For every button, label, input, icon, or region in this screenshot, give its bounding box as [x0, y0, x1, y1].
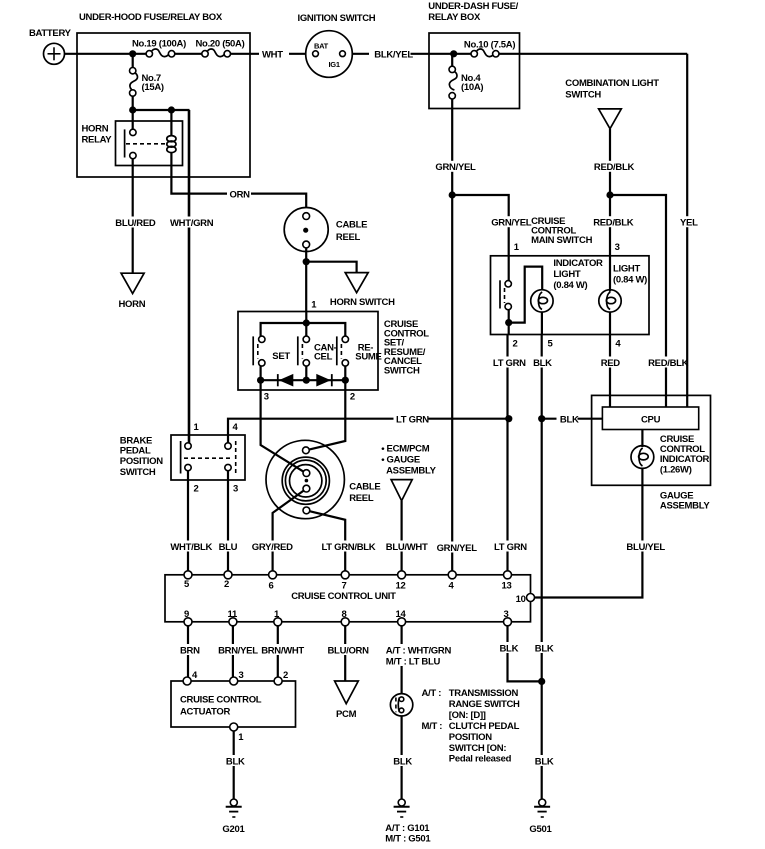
svg-text:No.19 (100A): No.19 (100A)	[132, 39, 186, 50]
wire branch to horn switch	[306, 262, 356, 273]
switch SET	[253, 336, 290, 366]
wire branch to main switch pin 1	[452, 195, 509, 256]
svg-text:POSITION: POSITION	[449, 732, 492, 743]
svg-text:LT GRN: LT GRN	[396, 415, 429, 426]
wire cable reel to horn switch node	[305, 248, 307, 312]
svg-text:CPU: CPU	[641, 415, 661, 426]
svg-text:BLK: BLK	[226, 757, 245, 768]
svg-text:GRY/RED: GRY/RED	[252, 542, 293, 553]
svg-text:HORN: HORN	[82, 124, 109, 135]
actuator terminal 1	[230, 723, 238, 731]
svg-text:CABLE: CABLE	[336, 220, 367, 231]
wire BLU	[227, 471, 229, 575]
svg-text:BRN: BRN	[180, 646, 200, 657]
combination light switch	[565, 78, 659, 129]
svg-text:SWITCH: SWITCH	[120, 467, 156, 478]
wire BRN/YEL	[232, 626, 234, 681]
svg-text:ASSEMBLY: ASSEMBLY	[386, 466, 436, 477]
svg-text:11: 11	[228, 609, 238, 620]
wire coil bottom lead / ORN to cable reel	[171, 153, 306, 208]
svg-text:MAIN SWITCH: MAIN SWITCH	[531, 235, 593, 246]
svg-text:BAT: BAT	[314, 42, 329, 51]
svg-text:GRN/YEL: GRN/YEL	[491, 218, 532, 229]
switch RESUME	[337, 336, 382, 366]
svg-text:BRN/WHT: BRN/WHT	[261, 646, 304, 657]
under-hood fuse/relay box	[77, 33, 250, 177]
svg-text:SET: SET	[272, 351, 290, 362]
cruise control set/resume/cancel switch box	[238, 312, 378, 391]
under-dash fuse/relay box	[429, 33, 520, 109]
wire YEL vertical	[686, 54, 688, 408]
svg-text:No.10 (7.5A): No.10 (7.5A)	[464, 40, 515, 51]
svg-text:13: 13	[502, 581, 512, 592]
light bulb	[599, 256, 621, 335]
wire pin 3 to cable reel 2	[261, 380, 306, 473]
fuse No.10 (7.5A)	[464, 40, 515, 58]
node bottom bus left	[257, 377, 264, 384]
wire BLK to G201	[233, 731, 235, 799]
svg-text:2: 2	[513, 339, 518, 350]
svg-text:WHT/BLK: WHT/BLK	[170, 542, 212, 553]
svg-text:HORN SWITCH: HORN SWITCH	[330, 297, 395, 308]
svg-text:BLK/YEL: BLK/YEL	[374, 50, 413, 61]
svg-text:REEL: REEL	[349, 493, 374, 504]
diode D1 (points left)	[278, 374, 294, 387]
wire into box to node	[429, 53, 472, 55]
svg-text:A/T : WHT/GRN: A/T : WHT/GRN	[386, 646, 452, 657]
node GRN/YEL branch	[449, 191, 456, 198]
svg-text:• GAUGE: • GAUGE	[381, 455, 420, 466]
switch CANCEL	[298, 336, 337, 366]
wire BLK to CPU	[542, 418, 603, 420]
svg-text:RED/BLK: RED/BLK	[593, 218, 634, 229]
svg-text:POSITION: POSITION	[120, 456, 163, 467]
svg-text:2: 2	[224, 579, 229, 590]
terminal 5	[184, 571, 192, 579]
node horn switch branch	[303, 258, 310, 265]
svg-text:BRN/YEL: BRN/YEL	[218, 646, 258, 657]
terminal 7	[341, 571, 349, 579]
svg-text:UNDER-DASH FUSE/: UNDER-DASH FUSE/	[428, 1, 518, 12]
svg-text:LIGHT: LIGHT	[553, 269, 580, 280]
gauge assembly box	[592, 395, 711, 485]
wire relay top bus	[133, 109, 190, 111]
wire RED (pin 4 to CPU)	[609, 335, 611, 408]
svg-text:GRN/YEL: GRN/YEL	[435, 162, 476, 173]
wire BLU/WHT	[401, 501, 403, 575]
svg-text:INDICATOR: INDICATOR	[660, 454, 710, 465]
svg-text:(0.84 W): (0.84 W)	[613, 275, 647, 286]
wire BRN	[187, 626, 189, 681]
terminal 6	[269, 571, 277, 579]
wire cable reel to GRY/RED	[273, 489, 307, 575]
wire RED/BLK from combination switch	[609, 129, 611, 256]
svg-text:2: 2	[350, 392, 355, 403]
node battery bus / fuse No.7	[129, 50, 136, 57]
svg-text:LT GRN/BLK: LT GRN/BLK	[322, 542, 376, 553]
wire fuse No.7 to relay bus	[132, 96, 134, 110]
wire BLK to G101	[401, 716, 403, 799]
cruise control actuator box	[171, 681, 296, 727]
svg-text:10: 10	[516, 594, 526, 605]
fuse No.4 (10A)	[449, 66, 483, 99]
terminal 1	[274, 618, 282, 626]
cruise control unit box	[165, 575, 531, 622]
svg-text:3: 3	[264, 392, 269, 403]
wire GRN/YEL vertical	[451, 99, 453, 575]
wire BLU/ORN to PCM	[344, 626, 346, 681]
wire pin 2 to cable reel 2	[306, 380, 345, 450]
svg-text:REEL: REEL	[336, 232, 361, 243]
wire fuse No.20 to WHT label	[230, 53, 259, 55]
svg-text:BLU/WHT: BLU/WHT	[386, 542, 428, 553]
svg-text:SWITCH: SWITCH	[384, 366, 420, 377]
svg-text:BLU: BLU	[219, 542, 238, 553]
svg-text:M/T : G501: M/T : G501	[385, 834, 431, 845]
wire WHT/GRN	[188, 110, 191, 443]
CPU box	[602, 407, 698, 430]
wire contact bottom lead / BLU/RED	[132, 159, 134, 274]
svg-text:CRUISE CONTROL: CRUISE CONTROL	[180, 695, 262, 706]
svg-text:IGNITION SWITCH: IGNITION SWITCH	[298, 13, 376, 24]
svg-text:(15A): (15A)	[142, 82, 164, 93]
svg-text:ASSEMBLY: ASSEMBLY	[660, 501, 710, 512]
wire BRN/WHT	[277, 626, 279, 681]
cruise control main switch box	[491, 256, 650, 335]
wire top bus	[261, 323, 346, 339]
svg-text:3: 3	[239, 670, 244, 681]
svg-text:CEL: CEL	[314, 352, 333, 363]
wire to indicator light	[509, 267, 543, 323]
wire ignition to BLK/YEL	[352, 53, 369, 55]
wire BLU/YEL to CCU pin 10	[532, 485, 643, 597]
svg-text:BLU/RED: BLU/RED	[115, 218, 156, 229]
svg-text:SUME: SUME	[355, 352, 381, 363]
wire LT GRN vertical (main switch pin 2 to CCU pin 13)	[506, 335, 508, 575]
terminal 13	[504, 571, 512, 579]
svg-text:BLK: BLK	[533, 358, 552, 369]
svg-text:UNDER-HOOD FUSE/RELAY BOX: UNDER-HOOD FUSE/RELAY BOX	[79, 12, 223, 23]
horn switch	[330, 273, 395, 308]
wire fuse No.19 to fuse No.20	[174, 53, 202, 55]
transmission range / clutch pedal switch	[390, 694, 412, 716]
svg-text:BLK: BLK	[535, 757, 554, 768]
wire A/T WHT/GRN	[401, 626, 403, 694]
actuator terminal 2	[274, 677, 282, 685]
svg-text:WHT/GRN: WHT/GRN	[170, 218, 214, 229]
svg-text:LIGHT: LIGHT	[613, 264, 640, 275]
svg-text:YEL: YEL	[680, 218, 698, 229]
svg-text:LT GRN: LT GRN	[494, 542, 527, 553]
wire fuse No.7 top	[132, 54, 134, 68]
node under-dash bus	[450, 50, 457, 57]
terminal 2	[224, 571, 232, 579]
svg-text:G201: G201	[222, 824, 245, 835]
svg-text:BATTERY: BATTERY	[29, 28, 72, 39]
svg-text:CLUTCH PEDAL: CLUTCH PEDAL	[449, 721, 520, 732]
svg-text:COMBINATION LIGHT: COMBINATION LIGHT	[565, 78, 659, 89]
fuse No.20 (50A)	[196, 39, 245, 58]
terminal 8	[341, 618, 349, 626]
wire fuse No.4 top lead	[451, 54, 453, 67]
indicator light bulb	[531, 290, 553, 335]
svg-text:A/T : G101: A/T : G101	[385, 823, 430, 834]
ground G501	[529, 799, 552, 835]
svg-text:RED: RED	[601, 358, 621, 369]
svg-text:M/T : LT BLU: M/T : LT BLU	[386, 657, 441, 668]
svg-text:A/T :: A/T :	[422, 688, 442, 699]
node relay contact feed	[129, 106, 136, 113]
svg-text:PEDAL: PEDAL	[120, 446, 151, 457]
node relay coil feed	[168, 106, 175, 113]
svg-text:9: 9	[184, 609, 189, 620]
svg-text:3: 3	[233, 484, 238, 495]
cable reel (dash)	[266, 440, 380, 518]
horn	[119, 273, 146, 310]
svg-text:BLK: BLK	[393, 757, 412, 768]
main switch contact	[500, 256, 511, 335]
svg-text:[ON: [D]]: [ON: [D]]	[449, 710, 486, 721]
wire fuse No.10 to YEL drop	[499, 53, 687, 55]
node bottom bus mid	[303, 377, 310, 384]
brake pedal position switch	[120, 435, 245, 480]
svg-text:• ECM/PCM: • ECM/PCM	[381, 444, 430, 455]
svg-text:CABLE: CABLE	[349, 482, 380, 493]
terminal 3	[504, 618, 512, 626]
svg-text:2: 2	[283, 670, 288, 681]
svg-text:RED/BLK: RED/BLK	[648, 358, 689, 369]
svg-text:BLU/YEL: BLU/YEL	[626, 542, 665, 553]
junction BLK ground bus	[538, 678, 545, 685]
svg-text:TRANSMISSION: TRANSMISSION	[449, 688, 519, 699]
terminal 9	[184, 618, 192, 626]
svg-text:G501: G501	[529, 824, 552, 835]
diode D2 (points right)	[316, 374, 332, 387]
node main switch	[505, 319, 512, 326]
wire BLK vertical (main switch pin 5 to ground)	[541, 335, 543, 800]
svg-text:RED/BLK: RED/BLK	[594, 162, 635, 173]
wire LT GRN horizontal	[228, 419, 509, 446]
wire BLK CCU pin 3	[508, 626, 542, 682]
svg-text:ORN: ORN	[230, 190, 251, 201]
wire bottom bus	[260, 366, 262, 380]
svg-text:RELAY: RELAY	[82, 135, 113, 146]
svg-text:BLU/ORN: BLU/ORN	[328, 646, 370, 657]
svg-text:Pedal released: Pedal released	[449, 754, 512, 765]
node top bus	[303, 319, 310, 326]
ground G101/G501	[385, 799, 431, 845]
svg-text:M/T :: M/T :	[422, 721, 443, 732]
svg-text:(10A): (10A)	[461, 82, 483, 93]
svg-text:ACTUATOR: ACTUATOR	[180, 707, 230, 718]
horn relay	[82, 121, 183, 166]
terminal 12	[398, 571, 406, 579]
svg-text:8: 8	[342, 609, 347, 620]
svg-text:WHT: WHT	[262, 50, 283, 61]
svg-text:SWITCH [ON:: SWITCH [ON:	[449, 743, 507, 754]
svg-text:BLK: BLK	[535, 644, 554, 655]
junction LT GRN	[505, 415, 512, 422]
junction BLK branch to CPU	[538, 415, 545, 422]
svg-text:CRUISE CONTROL UNIT: CRUISE CONTROL UNIT	[291, 591, 396, 602]
cable reel (steering)	[284, 208, 367, 252]
svg-text:12: 12	[396, 581, 406, 592]
terminal 11	[229, 618, 237, 626]
ignition switch	[298, 13, 376, 77]
actuator terminal 4	[183, 677, 191, 685]
cruise control indicator bulb	[631, 430, 654, 486]
svg-text:3: 3	[504, 609, 509, 620]
svg-text:2: 2	[194, 484, 199, 495]
actuator terminal 3	[230, 677, 238, 685]
svg-text:PCM: PCM	[336, 709, 357, 720]
svg-text:RELAY BOX: RELAY BOX	[428, 12, 481, 23]
svg-text:BLK: BLK	[560, 415, 579, 426]
svg-text:7: 7	[342, 581, 347, 592]
svg-text:HORN: HORN	[119, 299, 146, 310]
svg-text:(0.84 W): (0.84 W)	[553, 280, 587, 291]
terminal 4	[448, 571, 456, 579]
svg-text:IG1: IG1	[329, 60, 340, 69]
ECM/PCM connector triangle	[391, 480, 412, 501]
wire contact top lead	[132, 110, 134, 130]
ground G201	[222, 799, 245, 835]
wire battery to fuse No.19	[65, 53, 147, 55]
svg-text:INDICATOR: INDICATOR	[553, 258, 603, 269]
terminal 10	[527, 594, 535, 602]
node RED/BLK branch	[606, 191, 613, 198]
wire WHT/BLK	[187, 471, 189, 575]
svg-text:BLK: BLK	[500, 644, 519, 655]
svg-text:SWITCH: SWITCH	[565, 90, 601, 101]
svg-text:LT GRN: LT GRN	[493, 358, 526, 369]
wire RED/BLK branch to CPU	[610, 195, 666, 408]
node bottom bus right	[342, 377, 349, 384]
PCM connector triangle	[335, 681, 359, 704]
svg-text:No.20 (50A): No.20 (50A)	[196, 39, 245, 50]
wire cable reel to LT GRN/BLK	[306, 510, 345, 574]
svg-text:(1.26W): (1.26W)	[660, 465, 692, 476]
fuse No.7 (15A)	[130, 68, 164, 97]
terminal 14	[398, 618, 406, 626]
battery	[29, 28, 72, 64]
svg-text:14: 14	[396, 609, 407, 620]
svg-text:6: 6	[269, 581, 274, 592]
svg-text:RANGE SWITCH: RANGE SWITCH	[449, 699, 520, 710]
svg-text:GRN/YEL: GRN/YEL	[437, 543, 478, 554]
svg-text:3: 3	[615, 242, 620, 253]
fuse No.19 (100A)	[132, 39, 186, 58]
wire coil top lead	[170, 110, 172, 136]
